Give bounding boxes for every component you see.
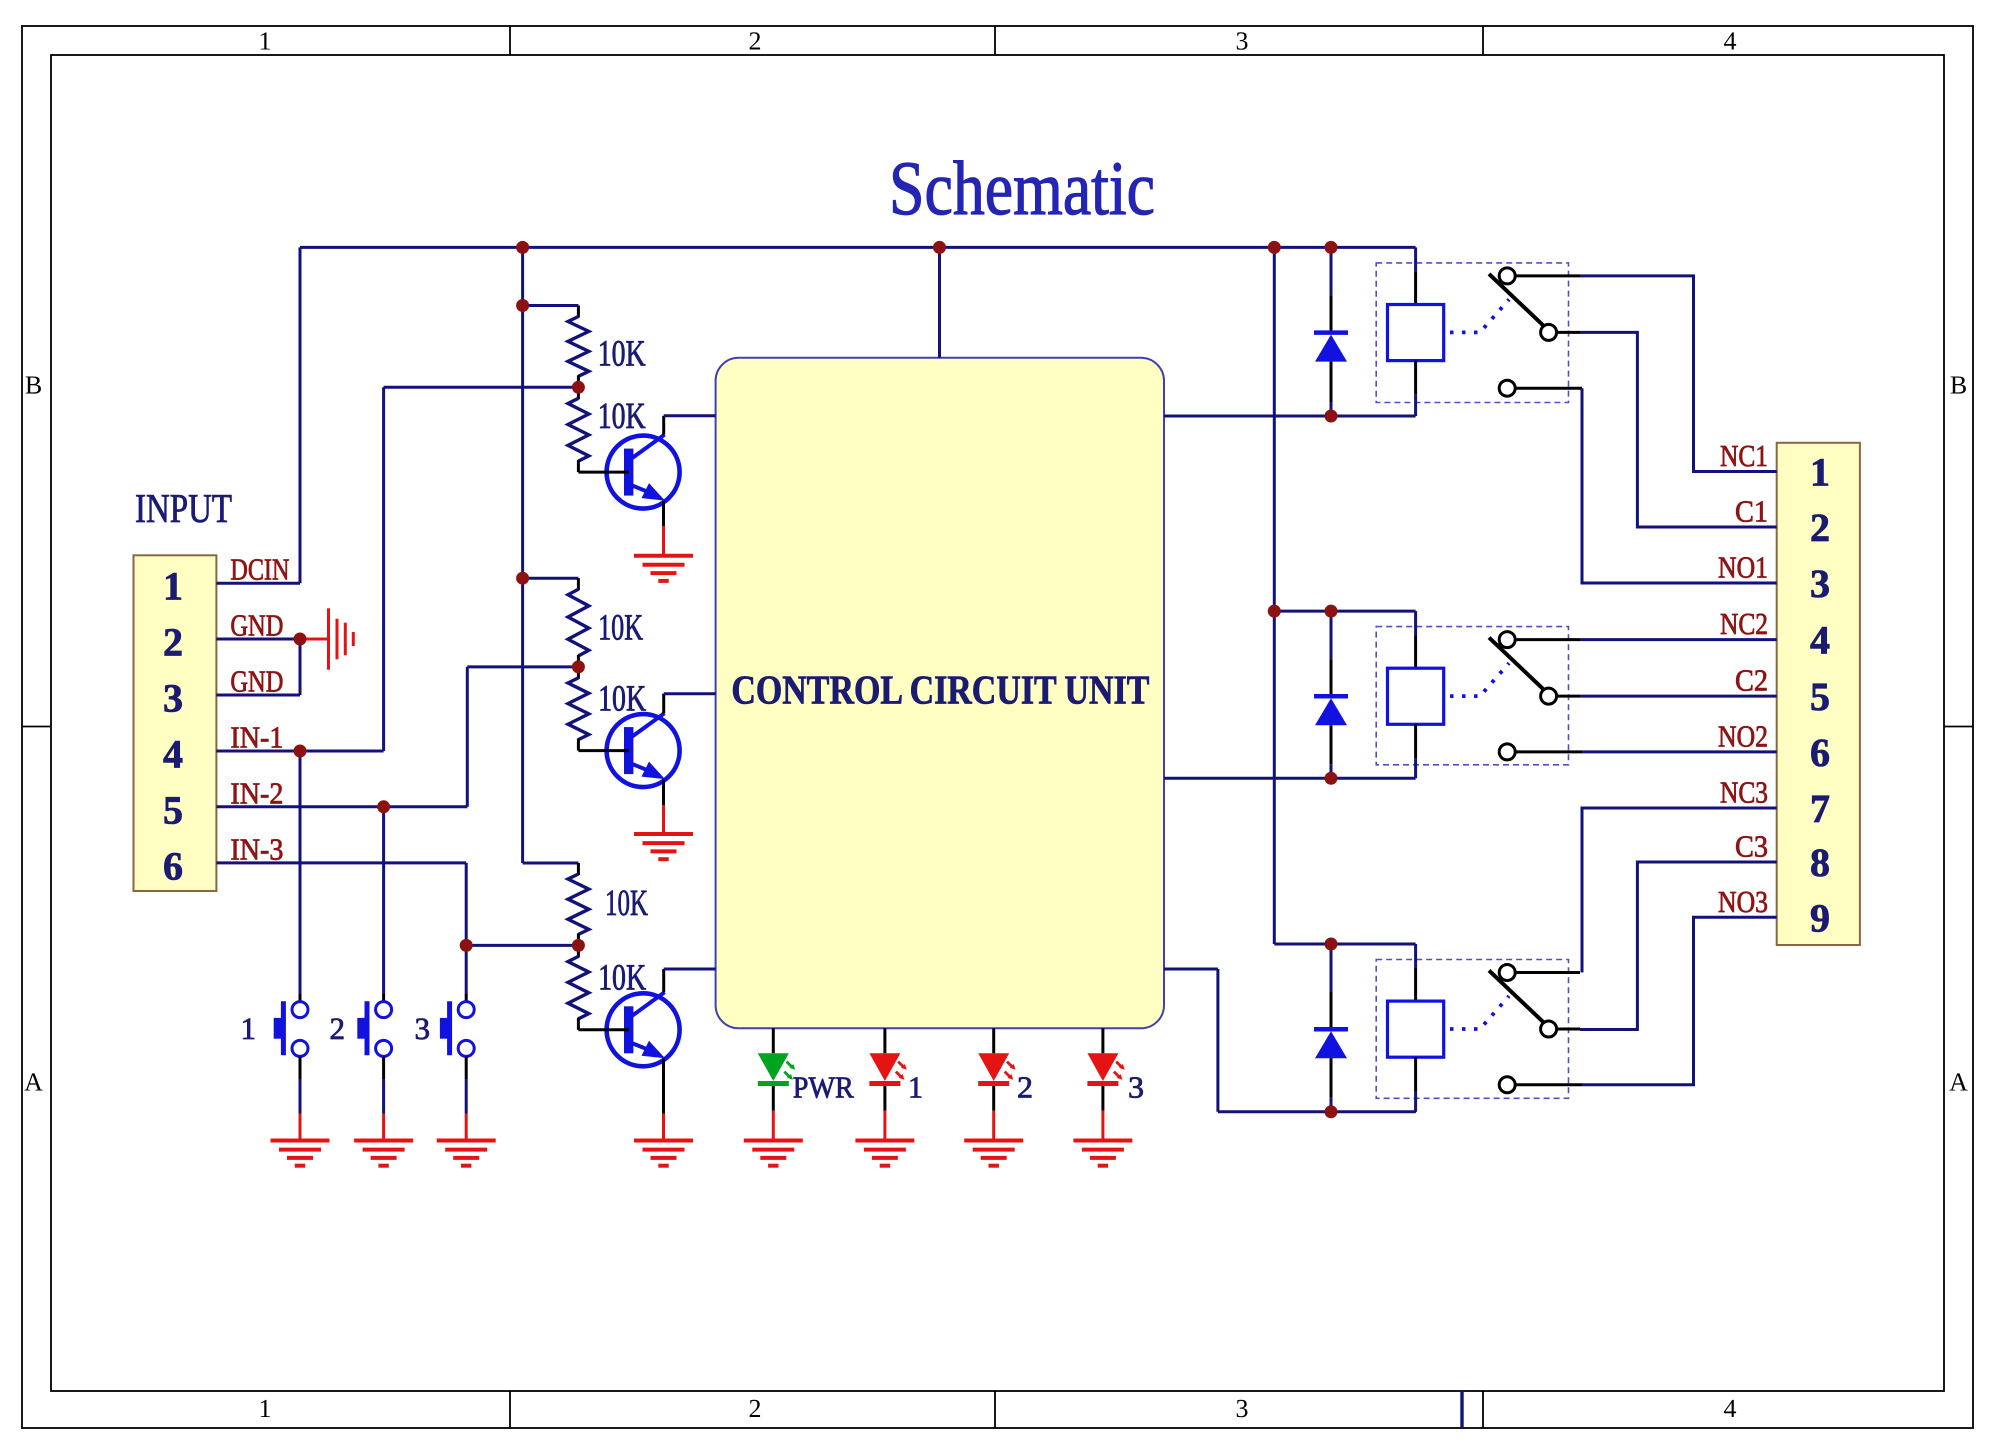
svg-text:NC2: NC2 bbox=[1720, 607, 1768, 641]
svg-text:7: 7 bbox=[1810, 786, 1830, 831]
svg-text:2: 2 bbox=[330, 1011, 346, 1046]
svg-text:2: 2 bbox=[163, 620, 183, 665]
svg-text:IN-2: IN-2 bbox=[230, 776, 283, 810]
svg-text:CONTROL CIRCUIT UNIT: CONTROL CIRCUIT UNIT bbox=[731, 666, 1149, 712]
svg-text:4: 4 bbox=[1724, 27, 1737, 56]
svg-text:3: 3 bbox=[1236, 1394, 1249, 1423]
svg-text:10K: 10K bbox=[598, 334, 646, 375]
svg-text:PWR: PWR bbox=[793, 1071, 855, 1105]
svg-text:10K: 10K bbox=[598, 608, 643, 649]
svg-text:4: 4 bbox=[1724, 1394, 1737, 1423]
svg-text:Schematic: Schematic bbox=[889, 145, 1155, 231]
svg-text:GND: GND bbox=[230, 665, 283, 699]
svg-text:IN-1: IN-1 bbox=[230, 721, 283, 755]
svg-text:1: 1 bbox=[241, 1011, 257, 1046]
svg-text:6: 6 bbox=[1810, 730, 1830, 775]
svg-text:B: B bbox=[25, 371, 42, 400]
svg-text:1: 1 bbox=[908, 1071, 923, 1105]
svg-text:5: 5 bbox=[1810, 674, 1830, 719]
svg-text:3: 3 bbox=[1128, 1071, 1144, 1105]
svg-text:4: 4 bbox=[163, 732, 183, 777]
svg-text:INPUT: INPUT bbox=[135, 485, 232, 531]
svg-text:B: B bbox=[1950, 371, 1967, 400]
svg-text:3: 3 bbox=[1236, 27, 1249, 56]
svg-text:2: 2 bbox=[749, 1394, 762, 1423]
svg-text:C1: C1 bbox=[1735, 495, 1768, 529]
svg-text:1: 1 bbox=[259, 1394, 272, 1423]
svg-text:3: 3 bbox=[163, 676, 183, 721]
svg-text:1: 1 bbox=[259, 27, 272, 56]
svg-text:NO3: NO3 bbox=[1718, 885, 1768, 919]
svg-text:C2: C2 bbox=[1735, 664, 1768, 698]
svg-text:2: 2 bbox=[1810, 505, 1830, 550]
svg-text:NO1: NO1 bbox=[1718, 551, 1768, 585]
svg-text:9: 9 bbox=[1810, 895, 1830, 940]
svg-text:6: 6 bbox=[163, 843, 183, 888]
svg-text:3: 3 bbox=[415, 1011, 431, 1046]
svg-text:2: 2 bbox=[749, 27, 762, 56]
svg-text:1: 1 bbox=[1810, 450, 1830, 495]
svg-text:NO2: NO2 bbox=[1718, 719, 1768, 753]
svg-text:3: 3 bbox=[1810, 561, 1830, 606]
svg-text:1: 1 bbox=[163, 564, 183, 609]
svg-text:IN-3: IN-3 bbox=[230, 832, 283, 866]
svg-text:A: A bbox=[24, 1068, 43, 1097]
svg-text:10K: 10K bbox=[598, 396, 646, 437]
svg-text:DCIN: DCIN bbox=[230, 553, 289, 587]
svg-text:2: 2 bbox=[1017, 1071, 1033, 1105]
svg-text:5: 5 bbox=[163, 787, 183, 832]
svg-text:4: 4 bbox=[1810, 618, 1830, 663]
svg-text:C3: C3 bbox=[1735, 830, 1768, 864]
svg-text:NC3: NC3 bbox=[1720, 776, 1768, 810]
svg-text:NC1: NC1 bbox=[1720, 439, 1768, 473]
svg-text:10K: 10K bbox=[605, 883, 648, 924]
svg-text:GND: GND bbox=[230, 609, 283, 643]
svg-text:8: 8 bbox=[1810, 840, 1830, 885]
svg-text:A: A bbox=[1949, 1068, 1968, 1097]
